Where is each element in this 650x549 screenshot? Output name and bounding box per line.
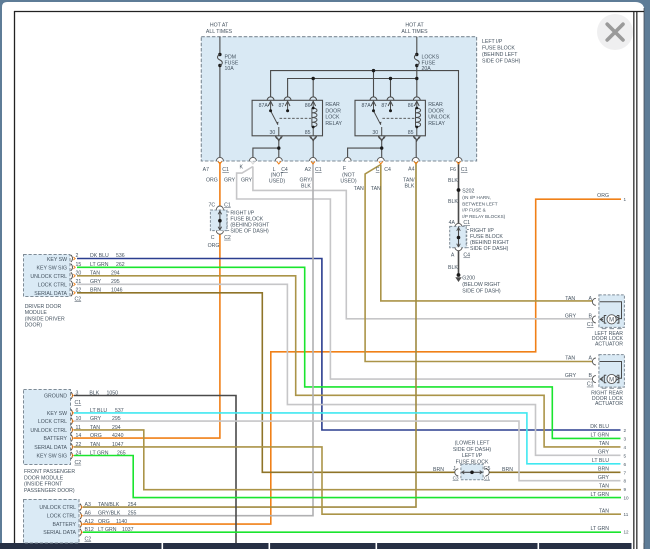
- wire GRY 295 relay K branch to right rear actuator B: [237, 167, 596, 380]
- wire TAN 294 relay C to left rear actuator A: [381, 165, 596, 301]
- svg-text:1: 1: [624, 197, 627, 202]
- svg-text:1047: 1047: [112, 442, 124, 448]
- svg-text:RELAY: RELAY: [428, 121, 445, 127]
- relay K2 switch: [374, 101, 391, 136]
- svg-text:14: 14: [76, 433, 82, 439]
- wire TAN 294 unlock ctrl passenger to connector 9: [74, 430, 621, 490]
- svg-text:A: A: [589, 356, 593, 362]
- svg-text:C4: C4: [463, 253, 470, 259]
- wire LT GRN 265 key sw sig passenger to connector 10: [74, 456, 621, 498]
- svg-text:GRY: GRY: [598, 450, 610, 456]
- wire relay K2 85 to A4: [415, 140, 417, 158]
- wire ORG fuse block C2 down to passenger battery pin 14: [74, 234, 220, 439]
- svg-text:GRY: GRY: [565, 313, 577, 319]
- svg-text:C1: C1: [224, 203, 231, 209]
- svg-text:294: 294: [112, 425, 121, 431]
- wire TAN/BLK 254 A4 to unlock ctrl A3: [83, 162, 416, 507]
- svg-text:TAN: TAN: [565, 296, 575, 302]
- svg-text:87A: 87A: [259, 103, 269, 109]
- node fuse to bus: [415, 77, 418, 80]
- svg-text:C1: C1: [461, 167, 468, 173]
- svg-text:B12: B12: [85, 527, 94, 533]
- svg-text:LOCK: LOCK: [325, 115, 340, 121]
- wire ORG A7 to fuse block 7C: [219, 162, 221, 207]
- relay K1 terminals bottom: [275, 136, 316, 141]
- svg-text:11: 11: [76, 425, 81, 431]
- svg-text:GROUND: GROUND: [44, 394, 67, 400]
- svg-text:BLK: BLK: [448, 199, 458, 205]
- svg-text:BLK: BLK: [448, 178, 458, 184]
- svg-text:LT GRN: LT GRN: [590, 526, 609, 532]
- svg-text:LOCK CTRL: LOCK CTRL: [38, 282, 67, 288]
- svg-text:BLK: BLK: [448, 265, 458, 271]
- svg-text:LT GRN: LT GRN: [90, 451, 109, 457]
- svg-text:A6: A6: [85, 511, 91, 517]
- svg-text:KEY SW: KEY SW: [47, 257, 67, 263]
- svg-text:85: 85: [305, 130, 311, 136]
- svg-text:295: 295: [112, 416, 121, 422]
- svg-text:LT GRN: LT GRN: [90, 262, 109, 268]
- svg-text:A: A: [589, 296, 593, 302]
- svg-text:C1: C1: [75, 400, 82, 406]
- svg-text:15: 15: [76, 262, 82, 268]
- svg-text:SIDE OF DASH): SIDE OF DASH): [462, 288, 501, 294]
- svg-text:BETWEEN LEFT: BETWEEN LEFT: [462, 201, 497, 206]
- svg-text:10: 10: [624, 496, 630, 501]
- fuse F2 LOCKS: [414, 53, 439, 72]
- svg-text:C4: C4: [384, 167, 391, 173]
- svg-text:C1: C1: [587, 322, 594, 328]
- relay K1 terminals top: [267, 97, 316, 106]
- svg-text:1050: 1050: [107, 391, 119, 397]
- svg-text:85: 85: [408, 130, 414, 136]
- motor symbol M: [607, 374, 616, 383]
- svg-text:SIDE OF DASH): SIDE OF DASH): [470, 246, 509, 252]
- wire GRY 295 relay K to left rear actuator B: [253, 167, 596, 319]
- node K2 output split: [380, 146, 383, 149]
- wire BRN fuse block E5 to connector 7: [489, 471, 621, 473]
- svg-text:294: 294: [111, 270, 120, 276]
- svg-text:22: 22: [76, 287, 82, 293]
- svg-text:RELAY: RELAY: [325, 121, 342, 127]
- svg-text:ORG: ORG: [597, 193, 609, 199]
- svg-text:4A: 4A: [449, 220, 456, 226]
- connector F not used: [340, 157, 356, 184]
- svg-text:GRY: GRY: [90, 416, 102, 422]
- svg-text:C1: C1: [463, 220, 470, 226]
- svg-text:87: 87: [279, 103, 285, 109]
- svg-text:9: 9: [624, 487, 627, 492]
- svg-text:REAR: REAR: [428, 102, 443, 108]
- svg-text:20A: 20A: [422, 66, 432, 72]
- svg-text:TAN: TAN: [371, 186, 381, 192]
- relay K2 actuation dashed link: [382, 117, 414, 119]
- svg-text:BLK: BLK: [89, 391, 99, 397]
- svg-text:M: M: [609, 318, 614, 324]
- svg-text:1046: 1046: [111, 287, 123, 293]
- hatch under actuator: [602, 328, 622, 330]
- svg-text:A4: A4: [408, 167, 414, 173]
- bus wire 87A common (ground bus): [271, 71, 459, 158]
- wire GRY 295 lock ctrl passenger to connector 8: [74, 421, 621, 481]
- svg-text:USED): USED): [340, 179, 356, 185]
- svg-text:262: 262: [116, 262, 125, 268]
- svg-text:KEY SW SIG: KEY SW SIG: [37, 454, 67, 460]
- svg-text:ACTUATOR: ACTUATOR: [595, 341, 623, 347]
- svg-text:USED): USED): [269, 179, 285, 185]
- svg-text:TAN/BLK: TAN/BLK: [98, 502, 120, 508]
- svg-text:A12: A12: [85, 519, 94, 525]
- svg-text:BRN: BRN: [502, 467, 513, 473]
- svg-text:ORG: ORG: [208, 243, 220, 249]
- connector A4: [408, 157, 419, 172]
- svg-text:7: 7: [624, 470, 627, 475]
- ground G200: [457, 273, 461, 277]
- svg-text:F6: F6: [450, 167, 456, 173]
- svg-text:C2: C2: [75, 296, 82, 302]
- connector L C4 not used: [269, 157, 288, 184]
- diagram frame: [14, 11, 16, 543]
- svg-text:DOOR MODULE: DOOR MODULE: [24, 475, 64, 481]
- svg-text:8: 8: [624, 479, 627, 484]
- svg-text:C2: C2: [85, 537, 92, 543]
- svg-text:TAN: TAN: [90, 425, 100, 431]
- svg-text:LEFT I/P: LEFT I/P: [482, 39, 503, 45]
- svg-text:K: K: [240, 165, 244, 171]
- svg-text:(BELOW RIGHT: (BELOW RIGHT: [462, 282, 501, 288]
- svg-text:UNLOCK: UNLOCK: [428, 115, 450, 121]
- right bg band: [645, 0, 650, 549]
- svg-text:SIDE OF DASH): SIDE OF DASH): [230, 229, 269, 235]
- wire LT BLU 537 key sw to connector 6: [74, 413, 621, 464]
- svg-text:TAN: TAN: [354, 186, 364, 192]
- svg-text:3: 3: [624, 436, 627, 441]
- svg-text:UNLOCK CTRL: UNLOCK CTRL: [39, 505, 76, 511]
- svg-text:A2: A2: [305, 167, 311, 173]
- relay K2 terminals bottom: [378, 136, 420, 141]
- svg-text:LT GRN: LT GRN: [98, 527, 117, 533]
- svg-text:LT GRN: LT GRN: [590, 433, 609, 439]
- svg-text:(INSIDE FRONT: (INSIDE FRONT: [24, 482, 63, 488]
- svg-text:LOCK CTRL: LOCK CTRL: [47, 514, 76, 520]
- svg-text:UNLOCK CTRL: UNLOCK CTRL: [30, 428, 67, 434]
- relay K1 switch: [271, 101, 288, 136]
- svg-text:KEY SW SIG: KEY SW SIG: [37, 265, 67, 271]
- svg-text:ALL TIMES: ALL TIMES: [401, 29, 428, 35]
- relay K1 coil: [312, 101, 317, 136]
- svg-text:MODULE: MODULE: [25, 310, 48, 316]
- svg-text:21: 21: [76, 279, 82, 285]
- wire BLK F6 to G200: [458, 162, 460, 275]
- svg-text:FRONT PASSENGER: FRONT PASSENGER: [24, 469, 75, 475]
- svg-text:1037: 1037: [122, 527, 134, 533]
- svg-text:C2: C2: [75, 460, 82, 466]
- relay K2 rear door unlock relay box: [355, 100, 425, 136]
- svg-text:86: 86: [305, 103, 311, 109]
- connector A7 C1: [203, 157, 229, 173]
- svg-text:C1: C1: [222, 167, 229, 173]
- svg-text:A7: A7: [203, 167, 209, 173]
- fuse block box: [210, 210, 227, 231]
- svg-text:HOT AT: HOT AT: [405, 22, 424, 28]
- svg-text:12: 12: [624, 530, 630, 535]
- svg-text:1140: 1140: [116, 519, 127, 525]
- node 87 relay2 bus: [389, 77, 392, 80]
- right I/P fuse block (4A): [455, 223, 462, 226]
- bus wire 87/86 battery feed: [288, 79, 417, 97]
- svg-text:A: A: [451, 253, 455, 259]
- svg-text:86: 86: [408, 103, 414, 109]
- wire DK BLU 536 key sw to connector 2: [77, 259, 621, 431]
- relay K1 rear door lock relay box: [252, 100, 322, 136]
- wire GRY/BLK 255 A2 to lock ctrl A6: [83, 162, 313, 516]
- svg-text:87A: 87A: [362, 103, 372, 109]
- motor symbol M: [607, 315, 616, 324]
- svg-text:10: 10: [76, 416, 82, 422]
- svg-text:(INSIDE DRIVER: (INSIDE DRIVER: [25, 316, 65, 322]
- svg-text:2: 2: [624, 428, 627, 433]
- svg-text:A3: A3: [85, 502, 91, 508]
- svg-text:GRY: GRY: [224, 178, 236, 184]
- relay K1 actuation dashed link: [280, 117, 312, 119]
- svg-text:DOOR): DOOR): [25, 323, 43, 329]
- connector K: [240, 157, 257, 170]
- svg-text:TAN: TAN: [90, 270, 100, 276]
- wire GRY 295 lock ctrl driver to connector 5: [77, 284, 621, 455]
- bottom navy bar: [0, 543, 650, 549]
- svg-text:10A: 10A: [225, 66, 235, 72]
- wire hot feed to LOCKS fuse: [416, 37, 418, 79]
- svg-text:ACTUATOR: ACTUATOR: [595, 401, 623, 407]
- svg-text:6: 6: [624, 462, 627, 467]
- svg-text:87: 87: [381, 103, 387, 109]
- svg-text:C1: C1: [315, 167, 322, 173]
- node 87A bus / relay2: [372, 69, 375, 72]
- close button: [597, 14, 633, 50]
- wire color labels under connector row: [206, 178, 458, 193]
- label relay K2: [428, 102, 450, 127]
- svg-text:GRY: GRY: [565, 373, 577, 379]
- svg-text:GRY: GRY: [90, 279, 102, 285]
- relay K2 terminals top: [370, 97, 420, 106]
- svg-text:254: 254: [128, 502, 137, 508]
- svg-text:BRN: BRN: [598, 466, 609, 472]
- svg-text:TAN: TAN: [599, 483, 609, 489]
- hot at all times label 2: [401, 22, 428, 35]
- svg-text:BATTERY: BATTERY: [44, 436, 68, 442]
- connector C C4: [376, 157, 391, 173]
- svg-text:11: 11: [624, 512, 629, 517]
- svg-text:30: 30: [372, 130, 378, 136]
- svg-text:(LOWER LEFT: (LOWER LEFT: [455, 441, 491, 447]
- connector bump 7C: [216, 206, 223, 209]
- svg-text:22: 22: [76, 442, 82, 448]
- label relay K1: [325, 102, 342, 127]
- wire ORG battery A12 to connector 1: [83, 199, 621, 524]
- svg-text:6: 6: [76, 408, 79, 414]
- svg-text:5: 5: [624, 453, 627, 458]
- connector F6 C1: [450, 157, 468, 173]
- svg-text:BRN: BRN: [90, 287, 101, 293]
- relay K2 coil: [416, 101, 421, 136]
- connector A2 C1: [305, 157, 322, 173]
- wire BRN 1046 serial data driver to fuse block J: [77, 293, 455, 473]
- svg-text:DK BLU: DK BLU: [90, 253, 109, 259]
- svg-text:DK BLU: DK BLU: [590, 424, 609, 430]
- svg-text:GRY: GRY: [241, 178, 253, 184]
- svg-text:255: 255: [128, 511, 137, 517]
- svg-text:TAN: TAN: [599, 441, 609, 447]
- svg-text:4: 4: [624, 445, 627, 450]
- svg-text:536: 536: [116, 253, 125, 259]
- wire TAN 1047 serial data passenger to connector 11: [74, 447, 621, 514]
- svg-text:(BEHIND LEFT: (BEHIND LEFT: [482, 52, 518, 58]
- label left I/P fuse block: [482, 39, 521, 65]
- svg-text:F: F: [343, 166, 346, 172]
- svg-text:BLK: BLK: [301, 184, 311, 190]
- svg-text:ORG: ORG: [206, 178, 218, 184]
- svg-text:GRY/BLK: GRY/BLK: [98, 511, 121, 517]
- svg-text:BRN: BRN: [433, 467, 444, 473]
- svg-text:G200: G200: [462, 276, 475, 282]
- svg-text:I/P FUSE &: I/P FUSE &: [462, 208, 485, 213]
- wire BLK 1050 ground to bottom: [74, 396, 236, 544]
- svg-text:B: B: [589, 373, 593, 379]
- svg-text:SIDE OF DASH): SIDE OF DASH): [453, 447, 492, 453]
- svg-text:C: C: [376, 167, 380, 173]
- svg-text:C1: C1: [587, 382, 594, 388]
- svg-text:30: 30: [270, 130, 276, 136]
- svg-text:4240: 4240: [112, 433, 124, 439]
- svg-text:DOOR: DOOR: [428, 108, 444, 114]
- svg-text:HOT AT: HOT AT: [210, 22, 229, 28]
- svg-text:LOCK CTRL: LOCK CTRL: [38, 419, 67, 425]
- hot at all times label 1: [206, 22, 233, 35]
- svg-text:LT BLU: LT BLU: [90, 408, 107, 414]
- svg-text:C3: C3: [453, 476, 459, 481]
- svg-text:PASSENGER DOOR): PASSENGER DOOR): [24, 488, 75, 494]
- svg-text:S202: S202: [462, 189, 474, 195]
- svg-text:SERIAL DATA: SERIAL DATA: [43, 530, 76, 536]
- splice S202: [457, 188, 461, 192]
- fuse block (blue dashed box): [201, 37, 476, 161]
- pin marks: [71, 255, 73, 296]
- svg-text:TAN: TAN: [90, 442, 100, 448]
- svg-text:(IN I/P HARN,: (IN I/P HARN,: [462, 195, 491, 200]
- svg-text:TAN: TAN: [565, 356, 575, 362]
- node K1 output split: [277, 146, 280, 149]
- svg-text:FUSE BLOCK: FUSE BLOCK: [482, 46, 515, 52]
- svg-text:3: 3: [76, 391, 79, 397]
- svg-text:LT GRN: LT GRN: [590, 492, 609, 498]
- svg-text:DRIVER DOOR: DRIVER DOOR: [25, 304, 62, 310]
- wire TAN 294 relay C branch to right rear actuator A: [365, 165, 595, 362]
- svg-text:C1: C1: [484, 476, 490, 481]
- svg-text:UNLOCK CTRL: UNLOCK CTRL: [30, 274, 67, 280]
- wire LT GRN 1037 serial data B12 to connector 12: [83, 531, 621, 533]
- wire LT GRN 262 key sw sig to connector 3: [77, 267, 621, 438]
- svg-text:ALL TIMES: ALL TIMES: [206, 29, 233, 35]
- svg-text:2: 2: [76, 253, 79, 259]
- wire relay K1 85 to A2: [312, 140, 314, 158]
- svg-text:LEFT I/P: LEFT I/P: [462, 453, 483, 459]
- svg-text:REAR: REAR: [325, 102, 340, 108]
- svg-text:B: B: [589, 313, 593, 319]
- svg-text:DOOR: DOOR: [325, 108, 341, 114]
- svg-text:265: 265: [117, 451, 126, 457]
- svg-text:7C: 7C: [209, 203, 216, 209]
- svg-text:537: 537: [115, 408, 124, 414]
- svg-text:ORG: ORG: [90, 433, 102, 439]
- svg-text:C: C: [211, 235, 215, 241]
- svg-text:BLK: BLK: [405, 184, 415, 190]
- svg-text:SERIAL DATA: SERIAL DATA: [34, 291, 67, 297]
- svg-text:20: 20: [76, 270, 82, 276]
- svg-text:BATTERY: BATTERY: [53, 522, 77, 528]
- svg-text:295: 295: [111, 279, 120, 285]
- svg-text:GRY: GRY: [598, 475, 610, 481]
- wire TAN 294 unlock ctrl driver to connector 4: [77, 276, 621, 447]
- wire relay K2 30 to connectors F and C: [348, 140, 382, 158]
- svg-text:KEY SW: KEY SW: [47, 411, 67, 417]
- svg-text:SERIAL DATA: SERIAL DATA: [34, 445, 67, 451]
- svg-text:I/P RELAY BLOCKS): I/P RELAY BLOCKS): [462, 214, 505, 219]
- wire hot feed to PDM fuse: [219, 37, 221, 158]
- svg-text:LT BLU: LT BLU: [592, 458, 609, 464]
- svg-text:M: M: [609, 377, 614, 383]
- connector bump C2: [216, 231, 223, 235]
- svg-text:TAN: TAN: [599, 508, 609, 514]
- svg-text:SIDE OF DASH): SIDE OF DASH): [482, 59, 521, 65]
- svg-text:24: 24: [76, 451, 82, 457]
- fuse F1 PDM: [218, 53, 239, 72]
- node 86 relay1 bus: [312, 77, 315, 80]
- svg-text:ORG: ORG: [98, 519, 110, 525]
- wire relay K1 30 to connectors K and L: [253, 140, 279, 158]
- svg-text:C2: C2: [224, 235, 231, 241]
